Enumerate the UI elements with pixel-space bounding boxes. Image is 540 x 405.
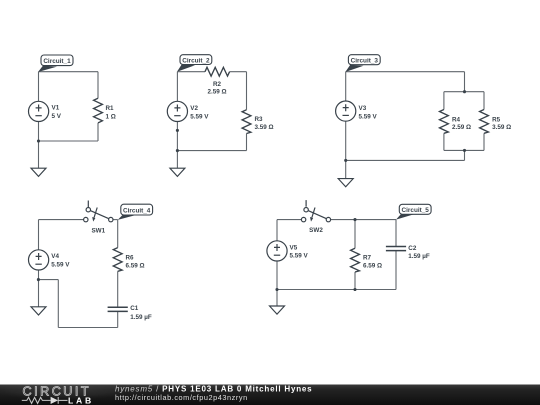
resistor R5: [480, 110, 489, 134]
label flag Circuit_4: [118, 215, 136, 220]
voltage source V4: [28, 250, 48, 270]
wire: C2 right lower: [246, 134, 248, 151]
svg-text:Circuit_2: Circuit_2: [182, 57, 210, 64]
node junction dot circuit2 bottom: [176, 149, 179, 152]
label flag Circuit_2: [177, 64, 195, 72]
wire: C4 right vertical upper: [117, 220, 119, 248]
wire: C3 top bus: [444, 91, 484, 93]
svg-text:V5: V5: [290, 244, 298, 251]
wire: C3 right branch upper: [483, 92, 485, 110]
wire: C2 right upper: [246, 72, 248, 110]
wire: C4 after switch: [113, 219, 118, 221]
svg-text:2.59 Ω: 2.59 Ω: [207, 88, 226, 95]
wire: C1 left upper: [38, 72, 40, 102]
node junction dot circuit1: [37, 139, 40, 142]
svg-text:V1: V1: [52, 105, 60, 112]
node junction dot below V2: [176, 129, 179, 132]
label flag Circuit_5: [396, 214, 414, 219]
voltage source V2: [167, 101, 187, 121]
svg-text:SW1: SW1: [91, 228, 105, 235]
svg-text:C1: C1: [130, 305, 139, 312]
wire: C5 C2 branch lower: [395, 251, 397, 290]
wire: C4 below cap: [117, 312, 119, 328]
svg-text:R6: R6: [126, 254, 135, 261]
svg-text:SW2: SW2: [309, 227, 323, 234]
svg-text:6.59 Ω: 6.59 Ω: [126, 262, 145, 269]
wire: C1 right upper: [97, 72, 99, 99]
svg-text:1.59 µF: 1.59 µF: [408, 253, 430, 260]
svg-text:6.59 Ω: 6.59 Ω: [363, 262, 382, 269]
label flag Circuit_3: [345, 65, 363, 72]
wire: C3 right branch lower: [483, 133, 485, 150]
svg-text:R3: R3: [255, 116, 264, 123]
wire: C2 bottom: [177, 150, 246, 152]
wire: C5 bottom: [277, 289, 396, 291]
resistor R2: [205, 67, 230, 76]
ground circuit5: [270, 306, 285, 314]
node dot C5 R7 bottom: [353, 288, 356, 291]
wire: C1 right lower: [97, 123, 99, 141]
wire: C3 top: [346, 71, 465, 73]
svg-text:1 Ω: 1 Ω: [106, 114, 116, 121]
wire: C3 bottom bus: [444, 149, 484, 151]
logo area highlight: [0, 376, 140, 400]
resistor R4: [440, 110, 449, 134]
svg-text:V4: V4: [51, 253, 59, 260]
wire: C1 left lower: [38, 122, 40, 142]
wire: C5 C2 branch upper: [395, 220, 397, 247]
wire: C3 left branch upper: [443, 92, 445, 110]
label flag Circuit_1: [38, 66, 57, 72]
SW1 arrow head: [92, 217, 95, 222]
node dot C4: [37, 278, 40, 281]
ground circuit3: [338, 179, 353, 187]
svg-text:5.59 V: 5.59 V: [359, 114, 378, 121]
wire: C5 R7 branch upper: [354, 220, 356, 249]
svg-text:Circuit_3: Circuit_3: [351, 58, 379, 65]
wire: C4 bottom: [58, 327, 117, 329]
resistor R1: [94, 98, 103, 123]
wire: C3 left lower: [345, 121, 347, 160]
wire: C5 left lower + gnd lead: [276, 261, 278, 306]
svg-text:Circuit_1: Circuit_1: [43, 58, 71, 65]
wire: C3 left upper: [345, 72, 347, 101]
wire: C2 left lower: [176, 121, 178, 150]
logo resistor-diode squiggle: [22, 397, 68, 404]
svg-text:5.59 V: 5.59 V: [290, 253, 309, 260]
svg-text:5 V: 5 V: [52, 113, 62, 120]
wire: C5 R7 branch lower: [354, 272, 356, 290]
voltage source V5: [267, 241, 287, 261]
wire: C4 bottom riser: [57, 280, 59, 328]
switch SW2: [301, 200, 330, 222]
voltage source V1: [28, 101, 48, 121]
svg-text:V3: V3: [359, 105, 367, 112]
capacitor C2: [386, 247, 406, 251]
svg-text:Circuit_4: Circuit_4: [123, 208, 151, 215]
wire: C4 jog to node: [38, 279, 58, 281]
wire: C4 R6 to C1cap: [117, 271, 119, 307]
wire: C5 left upper: [276, 220, 278, 241]
capacitor C1: [108, 307, 128, 311]
svg-text:R4: R4: [452, 116, 461, 123]
wire: C4 top left: [39, 219, 84, 221]
ground circuit4: [31, 307, 46, 315]
node dot C5 left bottom: [275, 288, 278, 291]
svg-text:3.59 Ω: 3.59 Ω: [492, 124, 511, 131]
svg-text:Circuit_5: Circuit_5: [402, 207, 430, 214]
ground circuit2: [170, 168, 185, 176]
node dot C3 bottom left: [344, 159, 347, 162]
wire: C1 bottom: [39, 140, 99, 142]
svg-text:R5: R5: [492, 116, 501, 123]
wire: C3 bottom drop: [464, 150, 466, 160]
svg-text:R1: R1: [106, 105, 115, 112]
SW2 arrow head: [310, 217, 313, 222]
voltage source V3: [336, 101, 356, 121]
wire: C5 top right: [331, 219, 396, 221]
svg-text:C2: C2: [408, 245, 417, 252]
wire: C4 left lower + ground lead: [38, 270, 40, 307]
logo diode triangle: [51, 397, 58, 404]
wire: C2 top right: [230, 71, 247, 73]
wire: C2 top left: [177, 71, 205, 73]
svg-text:1.59 µF: 1.59 µF: [130, 314, 152, 321]
wire: C2 left upper: [176, 72, 178, 102]
svg-text:3.59 Ω: 3.59 Ω: [255, 124, 274, 131]
svg-text:5.59 V: 5.59 V: [190, 113, 209, 120]
svg-text:R2: R2: [213, 81, 222, 88]
wire: C3 top drop: [464, 72, 466, 92]
node dot C3 top bus: [463, 90, 466, 93]
svg-text:http://circuitlab.com/cfpu2p43: http://circuitlab.com/cfpu2p43nzryn: [115, 393, 248, 402]
resistor R6: [113, 248, 122, 272]
resistor R7: [351, 248, 360, 272]
wire: C1 ground lead: [38, 141, 40, 168]
node dot C5 R7 top: [353, 218, 356, 221]
wire: C1 top: [39, 71, 99, 73]
svg-text:V2: V2: [190, 105, 198, 112]
svg-text:2.59 Ω: 2.59 Ω: [452, 124, 471, 131]
svg-text:5.59 V: 5.59 V: [51, 262, 70, 269]
ground circuit1: [31, 168, 46, 176]
switch SW1: [84, 201, 113, 222]
wire: C3 left branch lower: [443, 133, 445, 150]
wire: C2 ground lead: [176, 151, 178, 169]
wire: C3 bottom: [346, 159, 465, 161]
node dot C3 bottom bus: [463, 149, 466, 152]
resistor R3: [242, 110, 251, 134]
wire: C3 ground lead: [345, 160, 347, 178]
wire: C4 left upper: [38, 220, 40, 250]
svg-text:R7: R7: [363, 255, 372, 262]
wire: C5 top left: [277, 219, 301, 221]
svg-text:LAB: LAB: [68, 395, 94, 405]
